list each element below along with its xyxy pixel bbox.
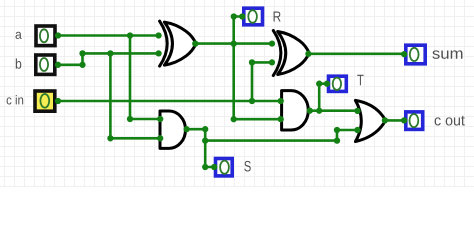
pin dot input a xyxy=(55,32,61,38)
label b xyxy=(16,58,21,68)
label sum xyxy=(432,50,462,58)
junction node R xyxy=(231,40,237,46)
terminal XOR1 output xyxy=(192,40,198,46)
terminal OR output xyxy=(382,117,388,123)
terminal AND2 input 2 xyxy=(278,116,284,122)
pin dot probe T xyxy=(324,81,330,87)
or gate U5 (carry out) xyxy=(355,100,385,141)
xor gate U1 (a xor b) xyxy=(160,21,196,66)
label c out xyxy=(435,116,465,126)
and gate U3 (a and b) xyxy=(160,111,185,148)
label c in xyxy=(7,95,24,105)
corner S-wire xyxy=(202,164,208,170)
wire: input a to XOR1 upper input xyxy=(57,34,160,37)
input switch c in box (selected, yellow) xyxy=(35,91,55,111)
output probe S box xyxy=(216,159,233,176)
output probe R box xyxy=(244,8,263,25)
wire: XOR1 output to XOR2 upper input xyxy=(195,42,272,45)
terminal XOR1 input 1 xyxy=(156,32,162,38)
wire: AND1 output down to S probe xyxy=(187,129,215,167)
junction a-wire to AND1 branch xyxy=(127,32,133,38)
state glyph O in c in xyxy=(40,94,49,108)
label S xyxy=(244,161,250,172)
pin dot probe R xyxy=(239,13,245,19)
wire: a-branch down to AND1 upper input xyxy=(130,36,160,120)
pin dot probe c out xyxy=(401,117,407,123)
output probe T box xyxy=(329,76,347,91)
corner R-wire xyxy=(231,13,237,19)
wire: input c in to AND2 upper input xyxy=(57,100,281,103)
corner R-branch xyxy=(231,116,237,122)
corner b-wire upper xyxy=(79,50,85,56)
xor gate U2 (sum) xyxy=(273,31,309,76)
state glyph O in S xyxy=(220,161,229,174)
junction and terminal dots xyxy=(55,13,408,170)
state glyph O in b xyxy=(40,58,48,71)
corner T-wire xyxy=(316,81,322,87)
corner b-wire xyxy=(79,62,85,68)
pin dot probe sum xyxy=(401,51,407,57)
terminal AND2 output xyxy=(307,108,313,114)
wire: AND2 output to OR upper input xyxy=(310,109,358,112)
terminal XOR1 input 2 xyxy=(156,50,162,56)
state glyph O in c out xyxy=(410,114,419,127)
and gate U4 ((a xor b) and c) xyxy=(282,91,309,130)
state glyph O in T xyxy=(333,78,341,90)
corner b-branch xyxy=(107,135,113,141)
label T xyxy=(357,75,363,86)
pin dot input c in xyxy=(55,98,61,104)
label a xyxy=(16,32,22,39)
state glyph O in a xyxy=(40,29,48,42)
junction node S xyxy=(202,137,208,143)
wire: c-branch up to XOR2 lower input xyxy=(252,62,272,101)
terminal AND1 input 1 xyxy=(157,116,163,122)
corner AND1 out wire xyxy=(202,126,208,132)
label R xyxy=(274,11,281,21)
corner a-branch xyxy=(127,116,133,122)
terminal AND1 input 2 xyxy=(157,135,163,141)
output probe sum box xyxy=(406,45,425,64)
wire: OR output to c out probe xyxy=(385,119,404,122)
wire: input b jog up to XOR1 lower input xyxy=(57,53,160,64)
pin dot probe S xyxy=(211,164,217,170)
wire: XOR2 output to sum probe xyxy=(308,52,404,55)
pin dot input b xyxy=(55,62,61,68)
junction node T xyxy=(316,108,322,114)
wire: AND1 branch to OR lower input xyxy=(205,130,357,141)
wire: b-branch down to AND1 lower input xyxy=(110,53,160,138)
state glyph O in sum xyxy=(410,48,419,61)
terminal AND1 output xyxy=(183,126,189,132)
terminal OR input 2 xyxy=(354,127,360,133)
junction b-wire to AND1 branch xyxy=(107,50,113,56)
terminal AND2 input 1 xyxy=(278,98,284,104)
wire: T probe tap up from AND2 output xyxy=(319,84,327,111)
background grid xyxy=(0,0,474,187)
corner c-branch xyxy=(249,59,255,65)
state glyph O in R xyxy=(248,10,257,23)
terminal XOR2 input 2 xyxy=(269,59,275,65)
corner OR lower branch xyxy=(334,137,340,143)
junction c-wire to XOR2 branch xyxy=(249,98,255,104)
output probe c out box xyxy=(406,112,423,129)
input switch a box xyxy=(36,26,55,46)
wire: R probe down to AND2 lower input xyxy=(234,17,281,120)
input switch b box xyxy=(36,55,55,74)
corner OR lower branch upper xyxy=(334,127,340,133)
terminal XOR2 input 1 xyxy=(269,41,275,47)
terminal XOR2 output xyxy=(305,51,311,57)
terminal OR input 1 xyxy=(354,108,360,114)
